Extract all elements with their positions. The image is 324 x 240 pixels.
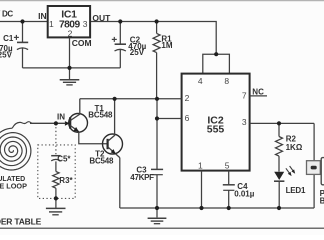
svg-text:UNDER TABLE: UNDER TABLE bbox=[0, 216, 42, 226]
svg-text:6: 6 bbox=[185, 113, 190, 123]
svg-text:C5*: C5* bbox=[57, 154, 71, 163]
svg-text:C1: C1 bbox=[3, 34, 14, 43]
svg-text:8: 8 bbox=[224, 76, 229, 86]
svg-text:1KΩ: 1KΩ bbox=[286, 143, 303, 152]
svg-text:Buzz: Buzz bbox=[320, 196, 324, 205]
svg-text:1: 1 bbox=[49, 19, 54, 29]
svg-text:BC548: BC548 bbox=[88, 110, 113, 119]
svg-text:555: 555 bbox=[207, 124, 225, 136]
svg-text:1: 1 bbox=[198, 160, 203, 170]
svg-text:0.01µ: 0.01µ bbox=[234, 190, 255, 199]
svg-text:7: 7 bbox=[242, 90, 247, 100]
svg-text:2: 2 bbox=[68, 29, 73, 39]
svg-text:COM: COM bbox=[72, 38, 92, 48]
svg-text:2: 2 bbox=[185, 93, 190, 103]
svg-text:4: 4 bbox=[198, 76, 203, 86]
svg-text:47KPF: 47KPF bbox=[130, 173, 154, 182]
svg-text:BC548: BC548 bbox=[89, 156, 114, 165]
svg-text:3: 3 bbox=[242, 117, 247, 127]
svg-text:WIRE LOOP: WIRE LOOP bbox=[0, 181, 27, 190]
svg-text:LED1: LED1 bbox=[286, 186, 306, 195]
svg-text:3: 3 bbox=[83, 19, 88, 29]
svg-text:25V: 25V bbox=[0, 51, 13, 60]
svg-text:V DC: V DC bbox=[0, 10, 13, 19]
svg-text:NC: NC bbox=[252, 87, 264, 96]
svg-text:1M: 1M bbox=[161, 41, 172, 50]
svg-text:OUT: OUT bbox=[92, 13, 111, 23]
svg-text:R3*: R3* bbox=[59, 176, 73, 185]
svg-text:IN: IN bbox=[57, 112, 65, 121]
svg-text:IC1: IC1 bbox=[61, 8, 77, 20]
svg-text:5: 5 bbox=[225, 160, 230, 170]
svg-text:IN: IN bbox=[38, 11, 47, 21]
svg-text:25V: 25V bbox=[130, 48, 145, 57]
